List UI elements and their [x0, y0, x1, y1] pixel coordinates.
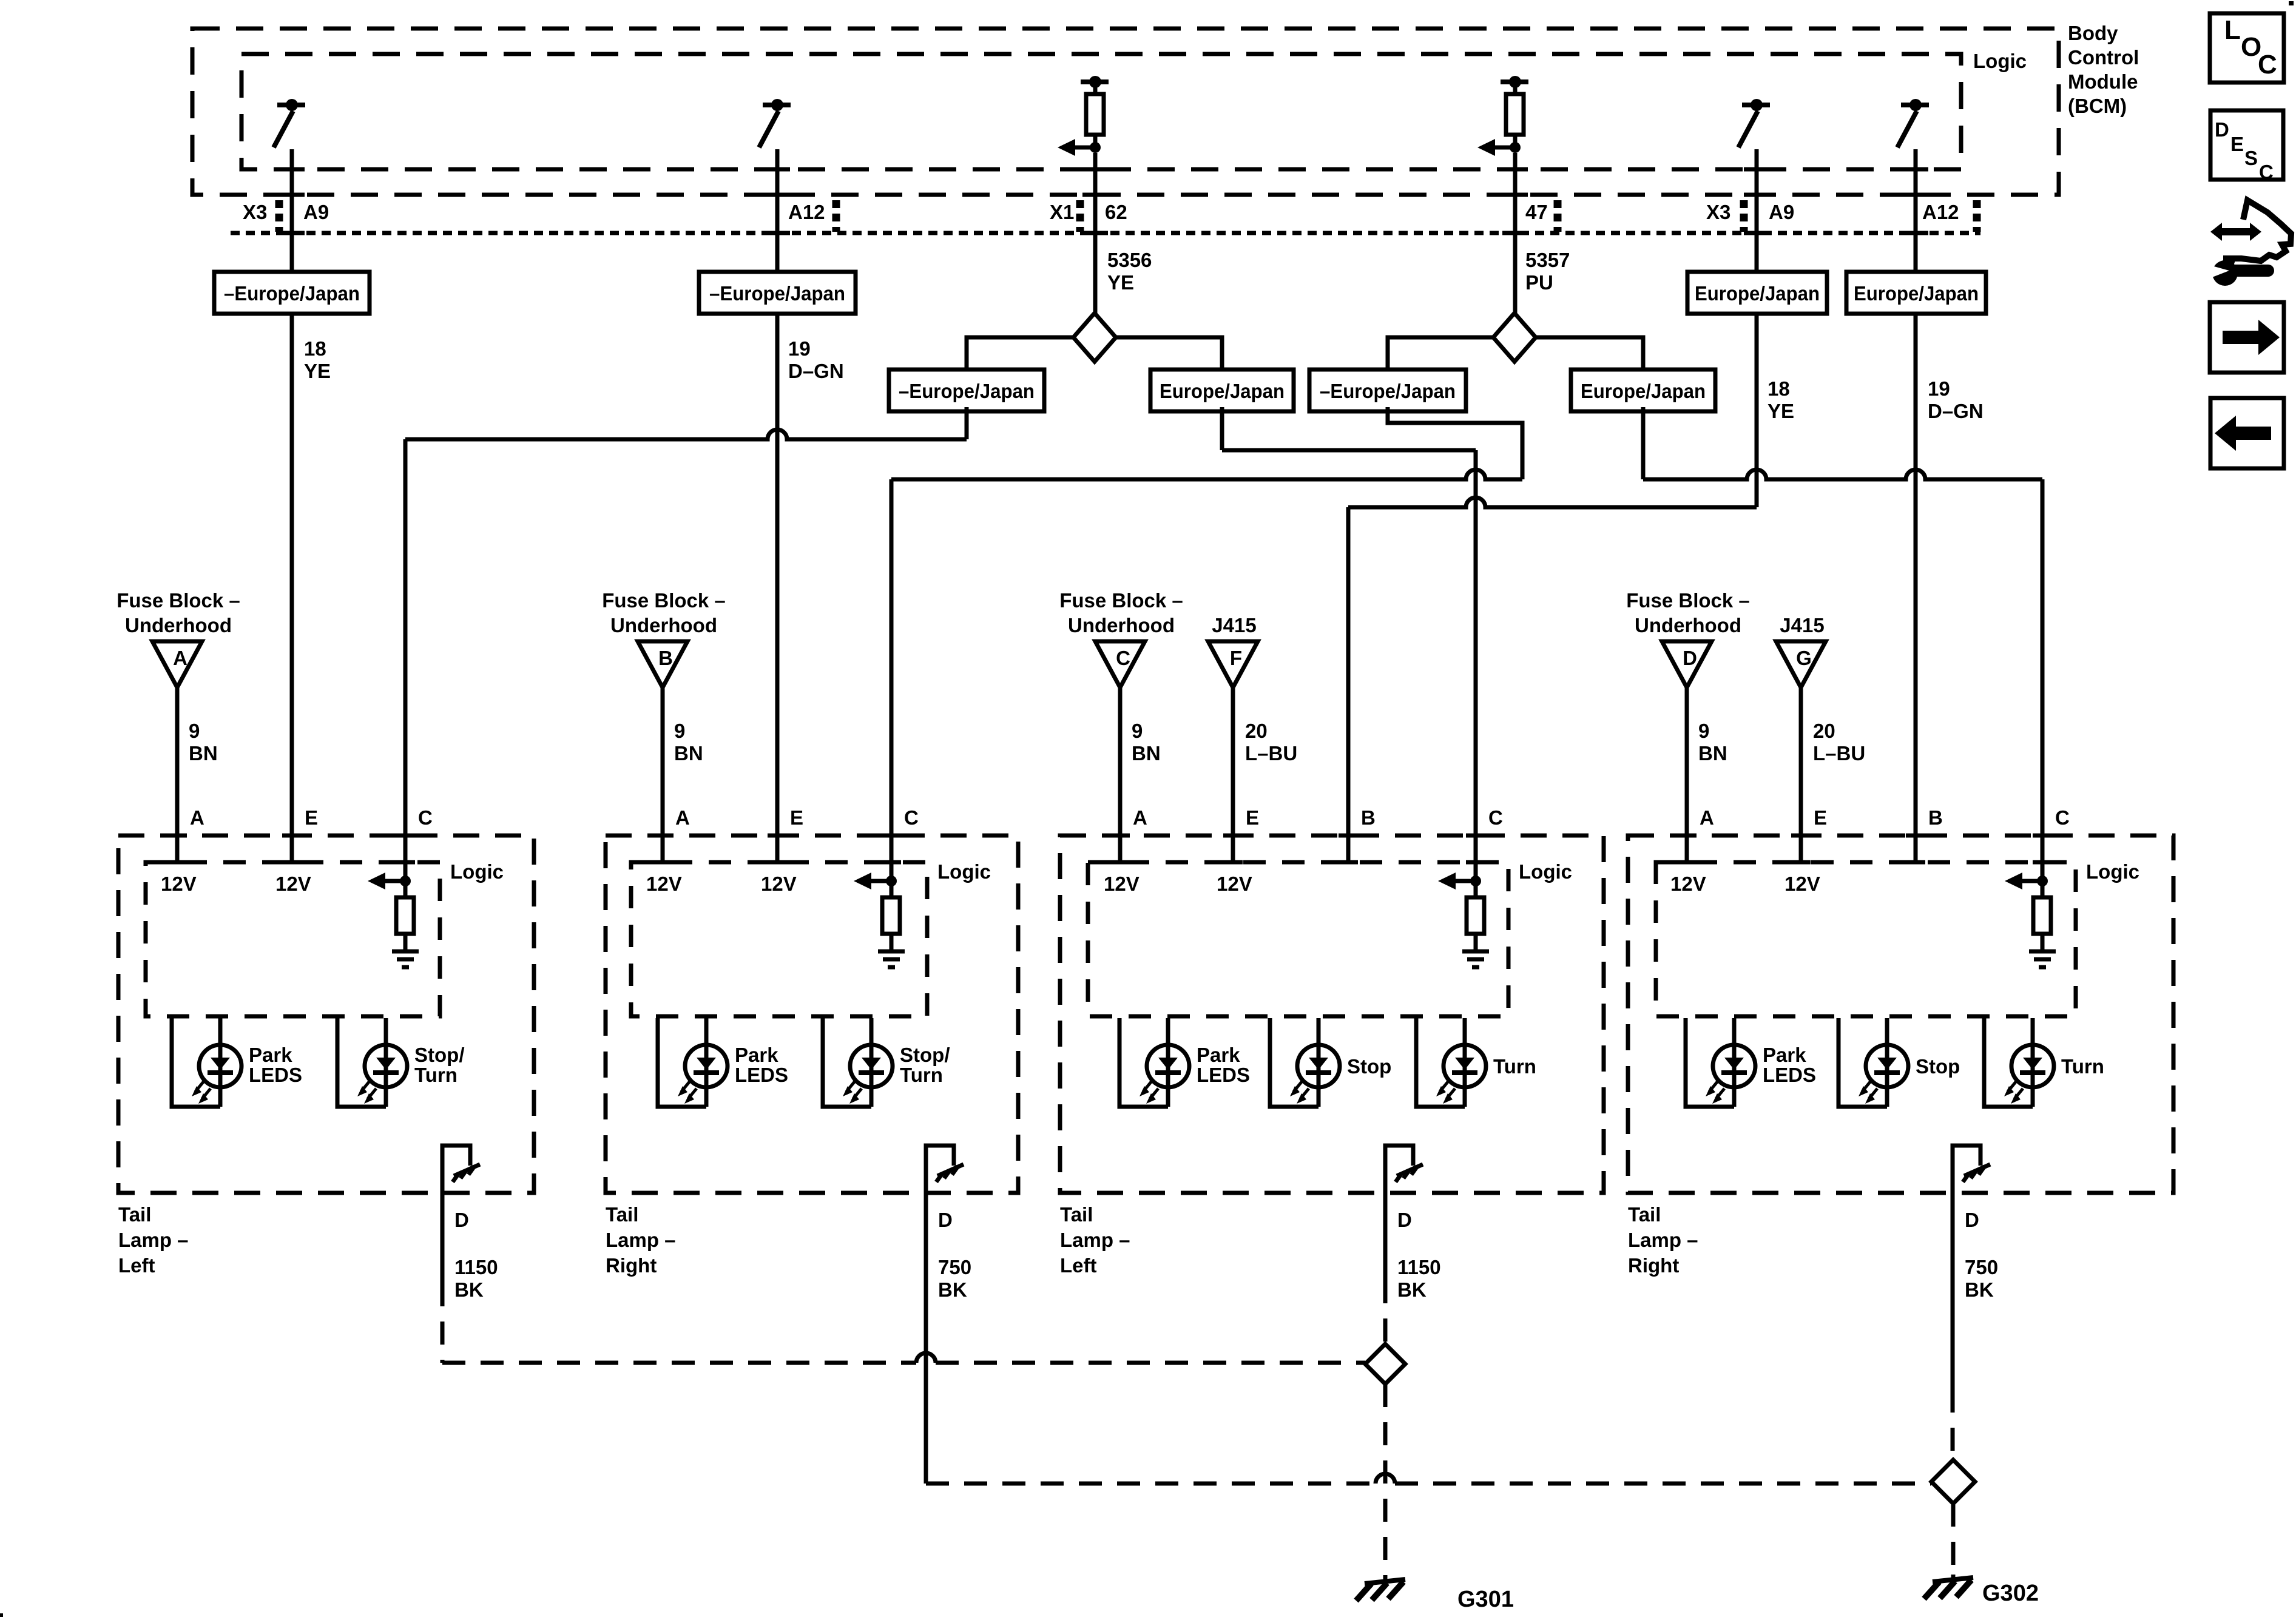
- switch output A9-right inside BCM: [1742, 103, 1770, 107]
- J415 triangle F: [1208, 641, 1258, 687]
- Tail|Lamp –|Left pin C: [396, 834, 415, 838]
- svg-text:YE: YE: [1107, 271, 1134, 294]
- Tail|Lamp –|Left Stop LED: [1270, 1018, 1319, 1107]
- lamp1 D wire solid: [441, 1193, 445, 1283]
- svg-text:9: 9: [189, 720, 200, 742]
- dashed wire G302 splice to G302: [1951, 1504, 1956, 1576]
- svg-text:(BCM): (BCM): [2068, 95, 2127, 117]
- svg-text:–Europe/Japan: –Europe/Japan: [1320, 380, 1456, 402]
- svg-text:Left: Left: [118, 1254, 155, 1277]
- switch output A12-left inside BCM: [763, 103, 791, 107]
- svg-text:C: C: [418, 806, 433, 829]
- svg-text:Fuse Block –: Fuse Block –: [116, 589, 240, 612]
- Tail|Lamp –|Left pin A: [1110, 834, 1130, 838]
- svg-text:9: 9: [674, 720, 685, 742]
- svg-text:1150: 1150: [454, 1256, 498, 1278]
- Tail|Lamp –|Left pin E: [1223, 834, 1243, 838]
- svg-text:A: A: [1133, 806, 1147, 829]
- svg-text:Europe/Japan: Europe/Japan: [1581, 380, 1706, 402]
- svg-text:Lamp –: Lamp –: [606, 1229, 676, 1251]
- svg-text:12V: 12V: [1670, 873, 1706, 895]
- option box Europe/Japan splice62 right: [1150, 370, 1294, 411]
- svg-text:Logic: Logic: [450, 860, 504, 883]
- svg-text:Underhood: Underhood: [610, 614, 717, 636]
- svg-text:750: 750: [1965, 1256, 1998, 1278]
- Tail|Lamp –|Left Turn LED: [1416, 1018, 1465, 1107]
- svg-text:B: B: [658, 647, 673, 669]
- svg-text:5356: 5356: [1107, 249, 1152, 271]
- svg-text:–Europe/Japan: –Europe/Japan: [899, 380, 1035, 402]
- Tail|Lamp –|Left outer box: [1060, 836, 1604, 1193]
- svg-text:Control: Control: [2068, 46, 2139, 69]
- svg-text:BN: BN: [674, 742, 703, 765]
- svg-text:PU: PU: [1525, 271, 1553, 294]
- svg-text:LEDS: LEDS: [735, 1064, 788, 1086]
- lamp3 D wire solid: [1383, 1193, 1388, 1280]
- svg-text:Module: Module: [2068, 70, 2138, 93]
- wire splice47 right branch: [1536, 337, 1643, 370]
- svg-text:Logic: Logic: [1519, 860, 1572, 883]
- Tail|Lamp –|Right pin B: [1906, 834, 1925, 838]
- svg-text:C: C: [904, 806, 919, 829]
- svg-text:E: E: [305, 806, 318, 829]
- Tail|Lamp –|Right Turn LED: [1984, 1018, 2033, 1107]
- svg-text:20: 20: [1813, 720, 1835, 742]
- switch output A12-right inside BCM: [1901, 103, 1929, 107]
- svg-text:Turn: Turn: [414, 1064, 458, 1086]
- svg-text:62: 62: [1105, 201, 1127, 223]
- Tail|Lamp –|Right inner Logic box: [1656, 862, 2076, 1016]
- svg-text:BK: BK: [1965, 1278, 1994, 1301]
- svg-text:BN: BN: [189, 742, 218, 765]
- svg-text:BK: BK: [938, 1278, 967, 1301]
- wire 18YE left down to Tail Lamp Left pin E: [290, 312, 294, 862]
- svg-text:C: C: [1488, 806, 1503, 829]
- svg-text:5357: 5357: [1525, 249, 1570, 271]
- svg-text:E: E: [1246, 806, 1259, 829]
- ground dashed bus to G302 splice: [926, 1482, 1376, 1486]
- svg-text:12V: 12V: [275, 873, 311, 895]
- wire 5357 PU from BCM 47: [1513, 153, 1518, 314]
- svg-text:Lamp –: Lamp –: [1628, 1229, 1698, 1251]
- Tail|Lamp –|Right pin A: [653, 834, 672, 838]
- svg-text:YE: YE: [304, 360, 331, 382]
- svg-text:Tail: Tail: [1628, 1203, 1661, 1226]
- lamp1 D wire dashed to splice: [441, 1283, 445, 1363]
- Tail|Lamp –|Right pin C: [882, 834, 901, 838]
- svg-text:Europe/Japan: Europe/Japan: [1160, 380, 1285, 402]
- separator X3|A9 right: [1740, 200, 1748, 232]
- driver output pin 62 inside BCM: [1081, 79, 1109, 84]
- svg-text:BK: BK: [1397, 1278, 1427, 1301]
- svg-text:D: D: [1965, 1209, 1979, 1231]
- Tail|Lamp –|Left pin E: [282, 834, 302, 838]
- svg-text:A12: A12: [1922, 201, 1959, 223]
- option box Europe/Japan on A12 right: [1846, 272, 1986, 314]
- svg-text:X3: X3: [1706, 201, 1730, 223]
- Tail|Lamp –|Right pin E: [1791, 834, 1811, 838]
- svg-text:C: C: [2258, 50, 2277, 79]
- svg-text:J415: J415: [1212, 614, 1256, 636]
- lamp2 D wire solid: [924, 1193, 928, 1484]
- svg-text:Turn: Turn: [900, 1064, 943, 1086]
- svg-text:LEDS: LEDS: [249, 1064, 302, 1086]
- wire bus splice62-right to Tail Lamp Left2 pin C: [1220, 407, 1224, 450]
- svg-text:12V: 12V: [761, 873, 797, 895]
- wire 19 D-GN right from BCM A12: [1914, 149, 1918, 272]
- wire 5356 YE from BCM 62: [1093, 153, 1098, 314]
- Tail|Lamp –|Right logic C driver arrow resistor ground: [886, 876, 897, 886]
- Tail|Lamp –|Left Stop/ LED: [337, 1018, 386, 1107]
- svg-text:E: E: [1814, 806, 1827, 829]
- Tail|Lamp –|Right Park LED: [658, 1018, 706, 1107]
- wire splice62 right branch: [1116, 337, 1222, 370]
- svg-text:D–GN: D–GN: [788, 360, 844, 382]
- Tail|Lamp –|Right pin E: [768, 834, 787, 838]
- wire splice47 left branch: [1388, 337, 1493, 370]
- svg-text:Park: Park: [1763, 1044, 1806, 1066]
- svg-text:D: D: [1683, 647, 1697, 669]
- Tail|Lamp –|Left logic C driver arrow resistor ground: [1470, 876, 1481, 886]
- Tail|Lamp –|Right Park LED: [1686, 1018, 1734, 1107]
- svg-text:X3: X3: [243, 201, 267, 223]
- svg-text:Logic: Logic: [2086, 860, 2139, 883]
- switch output A9-left inside BCM: [277, 103, 305, 107]
- Tail|Lamp –|Right pin A: [1677, 834, 1697, 838]
- separator A12 right: [1973, 200, 1981, 232]
- svg-text:Stop: Stop: [1347, 1055, 1391, 1078]
- svg-text:A: A: [190, 806, 204, 829]
- svg-text:LEDS: LEDS: [1763, 1064, 1816, 1086]
- svg-text:12V: 12V: [161, 873, 197, 895]
- svg-text:C: C: [2259, 161, 2274, 183]
- Tail|Lamp –|Left Park LED: [1119, 1018, 1168, 1107]
- option box -Europe/Japan splice47 left: [1309, 370, 1466, 411]
- svg-text:LEDS: LEDS: [1197, 1064, 1250, 1086]
- svg-text:Turn: Turn: [1493, 1055, 1536, 1078]
- BCM outer box (Body Control Module): [192, 29, 2059, 195]
- Tail|Lamp –|Right Stop LED: [1838, 1018, 1887, 1107]
- svg-text:Europe/Japan: Europe/Japan: [1695, 282, 1820, 305]
- fender and wrench icon: [2221, 228, 2251, 235]
- svg-text:Stop/: Stop/: [414, 1044, 464, 1066]
- svg-text:Lamp –: Lamp –: [118, 1229, 189, 1251]
- Tail|Lamp –|Left inner Logic box: [146, 862, 440, 1016]
- svg-text:C: C: [2055, 806, 2070, 829]
- wire bus splice47-right to Tail Lamp Right2 pin C: [1641, 407, 1646, 479]
- right arrow icon box: [2210, 302, 2284, 373]
- option box Europe/Japan on A9 right: [1687, 272, 1827, 314]
- wire 18YE right to Tail Lamp Left2 pin B: [1755, 312, 1759, 507]
- Tail|Lamp –|Right outer box: [1628, 836, 2173, 1193]
- svg-text:E: E: [790, 806, 803, 829]
- separator X3|A9 left: [275, 200, 283, 232]
- svg-text:A: A: [1700, 806, 1714, 829]
- Tail|Lamp –|Right pin C: [2033, 834, 2052, 838]
- svg-text:Left: Left: [1060, 1254, 1097, 1277]
- Tail|Lamp –|Left Park LED: [172, 1018, 220, 1107]
- svg-text:12V: 12V: [1104, 873, 1140, 895]
- svg-text:Right: Right: [606, 1254, 657, 1277]
- svg-text:18: 18: [1768, 377, 1790, 400]
- fuse triangle D: [1662, 641, 1712, 687]
- DESC icon box: [2210, 110, 2283, 180]
- svg-text:19: 19: [1928, 377, 1950, 400]
- svg-text:–Europe/Japan: –Europe/Japan: [224, 282, 360, 305]
- svg-text:9: 9: [1132, 720, 1143, 742]
- J415 triangle G: [1776, 641, 1826, 687]
- wire 19 D-GN left from BCM A12: [775, 149, 780, 272]
- svg-text:A: A: [173, 647, 187, 669]
- svg-text:B: B: [1361, 806, 1376, 829]
- svg-text:Fuse Block –: Fuse Block –: [602, 589, 726, 612]
- Tail|Lamp –|Left pin B: [1339, 834, 1358, 838]
- svg-text:D: D: [938, 1209, 953, 1231]
- svg-text:750: 750: [938, 1256, 971, 1278]
- G301 splice diamond: [1365, 1344, 1405, 1384]
- ground dashed bus to G301 splice: [442, 1361, 916, 1365]
- Tail|Lamp –|Left outer box: [118, 836, 534, 1193]
- lamp4 D wire solid: [1951, 1193, 1955, 1389]
- lamp3 D wire dashed to splice: [1383, 1280, 1388, 1344]
- svg-text:9: 9: [1698, 720, 1709, 742]
- svg-text:Fuse Block –: Fuse Block –: [1059, 589, 1183, 612]
- svg-text:Stop/: Stop/: [900, 1044, 950, 1066]
- separator A12 left: [832, 200, 840, 232]
- Tail|Lamp –|Left pin C: [1466, 834, 1485, 838]
- svg-text:Right: Right: [1628, 1254, 1679, 1277]
- svg-text:Logic: Logic: [937, 860, 991, 883]
- BCM inner Logic box: [241, 54, 1961, 169]
- fuse triangle B: [638, 641, 687, 687]
- Tail|Lamp –|Right logic C driver arrow resistor ground: [2037, 876, 2048, 886]
- svg-text:X1: X1: [1050, 201, 1074, 223]
- wire bus splice47-left to Tail Lamp Right pin C: [1388, 407, 1522, 479]
- Tail|Lamp –|Left ground hatch and D pin wire: [1385, 1146, 1413, 1193]
- Tail|Lamp –|Left pin A: [167, 834, 187, 838]
- svg-text:Park: Park: [249, 1044, 292, 1066]
- LOC icon box: [2210, 13, 2284, 83]
- fuse triangle A: [152, 641, 202, 687]
- splice diamond on wire 5357: [1493, 313, 1536, 362]
- svg-text:C: C: [1116, 647, 1130, 669]
- svg-text:Lamp –: Lamp –: [1060, 1229, 1130, 1251]
- Tail|Lamp –|Right outer box: [606, 836, 1018, 1193]
- left arrow icon box: [2210, 398, 2284, 468]
- svg-text:Fuse Block –: Fuse Block –: [1626, 589, 1750, 612]
- svg-text:BN: BN: [1132, 742, 1161, 765]
- wire 19 D-GN left down to Tail Lamp Right pin E: [775, 312, 780, 862]
- svg-text:A9: A9: [1769, 201, 1794, 223]
- svg-text:12V: 12V: [646, 873, 682, 895]
- svg-text:Underhood: Underhood: [1635, 614, 1741, 636]
- svg-text:D: D: [1397, 1209, 1412, 1231]
- svg-text:BK: BK: [454, 1278, 484, 1301]
- svg-text:D: D: [2215, 118, 2229, 141]
- separator 47: [1554, 200, 1562, 232]
- Tail|Lamp –|Right inner Logic box: [631, 862, 927, 1016]
- svg-text:A9: A9: [303, 201, 329, 223]
- svg-text:Underhood: Underhood: [125, 614, 232, 636]
- svg-text:Logic: Logic: [1973, 50, 2027, 72]
- svg-text:L–BU: L–BU: [1245, 742, 1297, 765]
- svg-text:B: B: [1928, 806, 1943, 829]
- svg-text:BN: BN: [1698, 742, 1727, 765]
- option box -Europe/Japan on A9 left: [214, 272, 370, 314]
- svg-text:G301: G301: [1457, 1587, 1514, 1612]
- Tail|Lamp –|Right Stop/ LED: [823, 1018, 871, 1107]
- svg-text:–Europe/Japan: –Europe/Japan: [709, 282, 845, 305]
- svg-text:J415: J415: [1780, 614, 1824, 636]
- svg-text:Europe/Japan: Europe/Japan: [1854, 282, 1979, 305]
- connector band bottom dashed line: [231, 231, 1980, 235]
- separator X1|62: [1076, 200, 1084, 232]
- ground G301: [1383, 1576, 1388, 1582]
- svg-text:L–BU: L–BU: [1813, 742, 1865, 765]
- option box Europe/Japan splice47 right: [1571, 370, 1715, 411]
- svg-text:A12: A12: [788, 201, 825, 223]
- svg-text:D: D: [454, 1209, 469, 1231]
- wire 19 D-GN right to Tail Lamp Right2 pin B: [1914, 312, 1918, 862]
- fuse triangle C: [1095, 641, 1145, 687]
- svg-text:47: 47: [1525, 201, 1548, 223]
- ground G302: [1951, 1575, 1956, 1581]
- option box -Europe/Japan on A12 left: [699, 272, 856, 314]
- Tail|Lamp –|Left ground hatch and D pin wire: [442, 1146, 470, 1193]
- svg-text:18: 18: [304, 337, 326, 360]
- svg-text:S: S: [2244, 147, 2258, 169]
- page corner mark bottom left: [0, 1613, 3, 1617]
- Tail|Lamp –|Right ground hatch and D pin wire: [1953, 1146, 1980, 1193]
- svg-text:Tail: Tail: [606, 1203, 638, 1226]
- svg-text:D–GN: D–GN: [1928, 400, 1984, 422]
- svg-text:Tail: Tail: [118, 1203, 151, 1226]
- wire 18 YE left from BCM A9: [290, 149, 294, 272]
- svg-text:G: G: [1796, 647, 1812, 669]
- page corner mark top right: [2289, 1, 2294, 5]
- dashed wire G301 splice to G301: [1383, 1384, 1388, 1578]
- wire bus splice62-left to Tail Lamp Left pin C: [965, 407, 969, 439]
- Tail|Lamp –|Left logic C driver arrow resistor ground: [400, 876, 411, 886]
- svg-text:20: 20: [1245, 720, 1268, 742]
- svg-text:L: L: [2224, 15, 2241, 45]
- Tail|Lamp –|Right ground hatch and D pin wire: [926, 1146, 954, 1193]
- G302 splice diamond: [1931, 1460, 1975, 1504]
- driver output pin 47 inside BCM: [1501, 79, 1528, 84]
- splice diamond on wire 5356: [1073, 313, 1116, 362]
- svg-text:G302: G302: [1982, 1581, 2039, 1606]
- svg-text:12V: 12V: [1784, 873, 1820, 895]
- svg-text:Body: Body: [2068, 22, 2118, 44]
- svg-text:A: A: [675, 806, 690, 829]
- lamp4 D wire dashed to splice: [1951, 1389, 1955, 1460]
- svg-text:E: E: [2230, 133, 2244, 155]
- svg-text:Park: Park: [735, 1044, 778, 1066]
- svg-text:12V: 12V: [1217, 873, 1252, 895]
- svg-text:1150: 1150: [1397, 1256, 1441, 1278]
- svg-text:YE: YE: [1768, 400, 1794, 422]
- wire splice62 left branch: [967, 337, 1073, 370]
- svg-text:Tail: Tail: [1060, 1203, 1093, 1226]
- option box -Europe/Japan splice62 left: [889, 370, 1044, 411]
- svg-text:19: 19: [788, 337, 811, 360]
- svg-text:F: F: [1230, 647, 1242, 669]
- svg-text:Park: Park: [1197, 1044, 1240, 1066]
- svg-text:Turn: Turn: [2061, 1055, 2104, 1078]
- svg-text:Stop: Stop: [1916, 1055, 1960, 1078]
- svg-text:Underhood: Underhood: [1068, 614, 1175, 636]
- wire 18 YE right from BCM A9: [1755, 149, 1759, 272]
- Tail|Lamp –|Left inner Logic box: [1088, 862, 1508, 1016]
